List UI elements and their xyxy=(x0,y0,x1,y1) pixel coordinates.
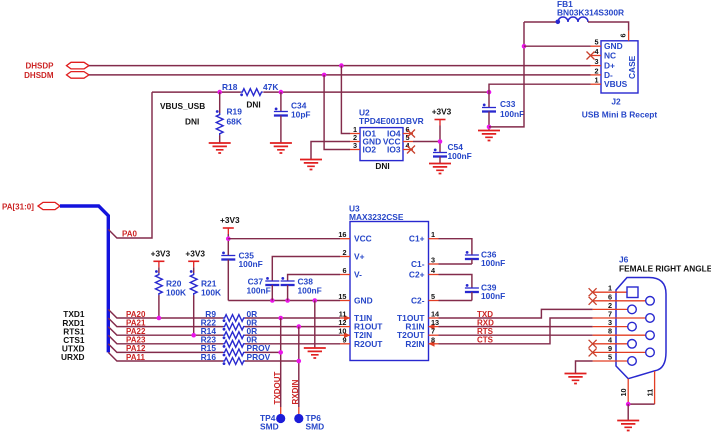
svg-text:R19: R19 xyxy=(227,107,243,117)
capacitor C35 100nF xyxy=(221,251,262,301)
wire GND rail to ground xyxy=(314,301,316,349)
svg-text:SMD: SMD xyxy=(306,421,325,431)
U3 pin 16 VCC xyxy=(338,230,371,244)
capacitor C37 100nF xyxy=(247,277,280,301)
U3 pin 1 C1+ xyxy=(409,230,439,244)
resistor R22 0R xyxy=(201,317,258,330)
wire J6 pin10-11 join xyxy=(628,403,654,405)
wire RXD to J6 pin3 xyxy=(439,326,593,328)
ground under C33 xyxy=(478,131,500,141)
no-connect X on U2 pin 4 xyxy=(407,146,415,154)
svg-text:FEMALE RIGHT ANGLE: FEMALE RIGHT ANGLE xyxy=(619,264,711,274)
wire U3 C2+ to C39 xyxy=(439,275,472,289)
svg-text:3: 3 xyxy=(431,256,435,265)
J6 pin 4 xyxy=(593,335,637,348)
svg-text:URXD: URXD xyxy=(61,352,85,362)
svg-text:+3V3: +3V3 xyxy=(220,215,240,225)
svg-text:RXDIN: RXDIN xyxy=(291,379,300,404)
wire CTS to J6 pin7 xyxy=(439,318,593,344)
U3 pin 4 C2+ xyxy=(409,266,439,280)
junction DHSDM / U2 IO2 xyxy=(322,73,327,78)
wire PA0 branch xyxy=(108,92,152,238)
svg-text:VBUS: VBUS xyxy=(604,79,628,89)
wire VBUS_USB / R18 net xyxy=(152,91,489,93)
resistor R23 0R xyxy=(201,335,258,348)
svg-text:47K: 47K xyxy=(263,82,278,92)
U3 pin 15 GND xyxy=(338,292,372,306)
svg-text:R2IN: R2IN xyxy=(405,339,424,349)
svg-text:NC: NC xyxy=(604,51,616,61)
U3 pin 12 R1OUT xyxy=(338,318,383,332)
U3 pin 8 R2IN xyxy=(405,335,438,349)
wire DHSDP to J2 D+ xyxy=(89,65,591,67)
wire U3 C1+ to C36 xyxy=(439,239,472,255)
wire PA22 branch from bus xyxy=(108,327,223,336)
op-amp U2 TPD4E001DBVR xyxy=(360,128,403,161)
svg-text:DNI: DNI xyxy=(246,100,260,110)
svg-text:11: 11 xyxy=(645,389,654,397)
U2 pin 5 VCC xyxy=(383,133,413,147)
junction RXDIN / R1OUT xyxy=(297,324,302,329)
svg-text:GND: GND xyxy=(354,296,373,306)
svg-text:1: 1 xyxy=(594,76,598,85)
resistor R18 47K DNI xyxy=(222,82,278,110)
svg-text:6: 6 xyxy=(342,266,346,275)
wire R16 to right xyxy=(245,360,299,362)
svg-text:15: 15 xyxy=(338,292,346,301)
wire PA23 branch from bus xyxy=(108,335,223,344)
connector J2 USB Mini B Recept xyxy=(601,41,638,93)
svg-text:10pF: 10pF xyxy=(291,110,311,120)
J6 pin 2 xyxy=(593,301,637,314)
svg-text:1: 1 xyxy=(431,230,435,239)
wire R9 to right xyxy=(245,317,340,319)
svg-text:TXDOUT: TXDOUT xyxy=(273,372,282,405)
junction C33 bottom / GND net xyxy=(487,125,492,130)
capacitor C34 10pF xyxy=(274,92,311,143)
J6 pin 6 xyxy=(593,292,655,305)
U3 pin 10 T2IN xyxy=(338,327,372,341)
testpoint TP6 SMD xyxy=(294,407,324,431)
U3 pin 11 T1IN xyxy=(339,310,372,324)
J6 pin 3 xyxy=(593,318,637,331)
svg-text:6: 6 xyxy=(619,33,628,37)
J6 pin 5 xyxy=(593,353,637,366)
capacitor C54 100nF xyxy=(433,142,472,164)
junction C38 bottom xyxy=(285,298,290,303)
resistor R15 PROV xyxy=(201,343,271,356)
wire PA11 branch from bus xyxy=(108,352,223,361)
svg-text:USB Mini B Recept: USB Mini B Recept xyxy=(582,110,658,120)
svg-text:10: 10 xyxy=(619,388,628,396)
svg-text:3: 3 xyxy=(353,141,357,150)
svg-text:R18: R18 xyxy=(222,82,238,92)
svg-text:16: 16 xyxy=(338,230,346,239)
U3 pin 6 V- xyxy=(340,266,362,280)
U3 pin 7 T2OUT xyxy=(397,327,438,341)
wire C36 bottom to U3 C1- xyxy=(439,263,472,265)
wire U3 V+ to C37 xyxy=(272,257,340,282)
ground below U3 xyxy=(304,348,326,358)
J2 pin 1 VBUS xyxy=(591,76,628,90)
junction R21 / PA22 xyxy=(191,333,196,338)
no-connect X on J6 pin 6 xyxy=(589,297,597,305)
op-amp U3 MAX3232CSE xyxy=(350,222,429,361)
no-connect X on J6 pin 4 xyxy=(589,340,597,348)
junction TXDOUT / T1IN xyxy=(278,316,283,321)
wire TXD to J6 pin2 xyxy=(439,309,593,318)
svg-text:IO3: IO3 xyxy=(387,145,401,155)
junction +3V3 / U3 VCC xyxy=(226,236,231,241)
junction VBUS xyxy=(487,90,492,95)
svg-text:100nF: 100nF xyxy=(481,258,505,268)
wire GND net vertical to FB1 xyxy=(489,22,524,127)
svg-text:100nF: 100nF xyxy=(298,286,322,296)
U2 pin 3 IO2 xyxy=(350,141,376,155)
U2 pin 4 IO3 xyxy=(387,141,413,155)
svg-text:100K: 100K xyxy=(166,288,186,298)
junction DHSDP / U2 IO1 xyxy=(339,63,344,68)
wire RTS to J6 pin8 xyxy=(439,334,593,336)
svg-text:100nF: 100nF xyxy=(500,109,524,119)
resistor R19 68K DNI xyxy=(185,92,242,143)
J2 pin 4 NC xyxy=(591,47,617,61)
J2 pin 6 CASE xyxy=(619,31,637,79)
svg-text:8: 8 xyxy=(431,335,435,344)
wire R22 to right xyxy=(245,326,340,328)
U3 pin 5 C2- xyxy=(411,292,439,306)
svg-text:100K: 100K xyxy=(201,288,221,298)
wire PA12 branch from bus xyxy=(108,344,223,353)
wire DHSDM to U2 IO2 xyxy=(324,75,350,150)
junction U2 VCC / C54 xyxy=(438,139,443,144)
wire PA21 branch from bus xyxy=(108,318,223,327)
connector J6 FEMALE RIGHT ANGLE xyxy=(616,278,666,379)
J2 pin 3 D+ xyxy=(591,57,616,71)
svg-text:100nF: 100nF xyxy=(481,291,505,301)
junction RXDIN / R16 xyxy=(297,359,302,364)
power +3V3 at R20 xyxy=(151,248,171,267)
svg-text:VCC: VCC xyxy=(354,234,372,244)
junction R18/R19 xyxy=(217,90,222,95)
J6 pin 10 xyxy=(619,379,628,404)
U3 pin 9 R2OUT xyxy=(340,335,383,349)
wire GND to J2 pin5 xyxy=(524,45,591,47)
svg-text:+3V3: +3V3 xyxy=(151,248,171,258)
resistor R20 100K xyxy=(155,267,186,318)
svg-text:R16: R16 xyxy=(201,352,217,362)
wire DHSDP to U2 IO1 xyxy=(341,66,350,134)
ground under C54 xyxy=(429,164,451,174)
wire J2 VBUS to C33 xyxy=(489,84,591,92)
bus PA[31:0] xyxy=(60,206,108,352)
svg-text:9: 9 xyxy=(342,335,346,344)
node PA[31:0] bus connector xyxy=(2,202,60,211)
ground under C34 xyxy=(270,143,292,153)
J2 pin 5 GND xyxy=(591,38,623,52)
wire +3V3 down to C54 xyxy=(439,126,441,153)
U2 pin 1 IO1 xyxy=(350,125,376,139)
junction R18/C34 xyxy=(279,90,284,95)
junction GND rail branch xyxy=(313,298,318,303)
wire U2 VCC to +3V3 xyxy=(413,141,440,143)
wire RXDIN vertical xyxy=(298,327,300,407)
resistor R9 0R xyxy=(205,309,257,322)
wire TXDOUT vertical xyxy=(280,318,282,407)
power +3V3 at U2 xyxy=(432,107,452,126)
wire R23 to right xyxy=(245,343,340,345)
wire R15 to right xyxy=(245,351,281,353)
wire U3 V- to C38 xyxy=(288,275,340,282)
svg-text:PA11: PA11 xyxy=(126,353,146,362)
wire DHSDM to J2 D- xyxy=(89,74,591,76)
svg-text:BN03K314S300R: BN03K314S300R xyxy=(557,8,624,18)
svg-text:C2-: C2- xyxy=(411,296,425,306)
svg-text:5: 5 xyxy=(608,353,612,362)
power +3V3 at U3 VCC xyxy=(220,215,240,234)
wire FB1 left xyxy=(524,21,558,23)
U2 pin 2 GND xyxy=(350,133,381,147)
J6 pin 1 xyxy=(593,284,638,298)
no-connect X on J2 pin 4 xyxy=(587,52,595,60)
power +3V3 at R21 xyxy=(185,248,205,267)
svg-text:100nF: 100nF xyxy=(239,259,263,269)
wire GND rail to U3 pin15 xyxy=(228,300,340,302)
U3 pin 2 V+ xyxy=(340,248,365,262)
junction J6 shield ground xyxy=(626,402,631,407)
svg-text:+3V3: +3V3 xyxy=(432,107,452,117)
svg-text:SMD: SMD xyxy=(260,421,279,431)
ground at J6 pin5 xyxy=(565,374,587,384)
svg-text:2: 2 xyxy=(594,66,598,75)
svg-text:C1+: C1+ xyxy=(409,234,425,244)
wire PA20 branch from bus xyxy=(108,309,223,318)
svg-text:PA[31:0]: PA[31:0] xyxy=(2,202,34,211)
ground under R19 xyxy=(209,143,231,153)
testpoint TP4 SMD xyxy=(260,407,285,431)
svg-text:VBUS_USB: VBUS_USB xyxy=(160,101,205,111)
svg-text:V-: V- xyxy=(354,270,362,280)
svg-text:J2: J2 xyxy=(611,97,621,107)
junction GND / J2 pin5 xyxy=(522,44,527,49)
U3 pin 14 T1OUT xyxy=(397,310,440,324)
svg-text:CTS: CTS xyxy=(477,336,494,345)
svg-text:IO2: IO2 xyxy=(363,145,377,155)
U3 pin 13 R1IN xyxy=(405,318,439,332)
capacitor C38 100nF xyxy=(281,277,322,301)
ground under U2 pin 2 xyxy=(300,160,322,170)
svg-text:C33: C33 xyxy=(500,99,516,109)
svg-text:TPD4E001DBVR: TPD4E001DBVR xyxy=(359,116,424,126)
junction TXDOUT / R15 xyxy=(278,350,283,355)
J6 pin 8 xyxy=(593,327,655,340)
wire FB1 right to J2 CASE xyxy=(588,22,629,31)
svg-text:DHSDP: DHSDP xyxy=(25,62,54,71)
ground under J6 xyxy=(617,421,639,431)
U2 pin 6 IO4 xyxy=(387,125,413,139)
svg-text:PA0: PA0 xyxy=(122,230,138,239)
capacitor C33 100nF xyxy=(482,92,524,130)
svg-text:5: 5 xyxy=(431,292,435,301)
junction C37 bottom xyxy=(270,298,275,303)
svg-text:100nF: 100nF xyxy=(448,151,472,161)
node DHSDM off-page connector xyxy=(24,71,89,80)
svg-text:2: 2 xyxy=(342,248,346,257)
J6 pin 7 xyxy=(593,310,655,323)
svg-text:R2OUT: R2OUT xyxy=(354,339,383,349)
node DHSDP off-page connector xyxy=(25,62,89,71)
svg-text:DNI: DNI xyxy=(375,161,389,171)
svg-text:CASE: CASE xyxy=(627,55,637,79)
svg-text:68K: 68K xyxy=(227,117,242,127)
no-connect X on J6 pin 1 xyxy=(589,288,597,296)
resistor R14 0R xyxy=(201,326,258,339)
svg-text:C2+: C2+ xyxy=(409,270,425,280)
wire J6 pin5 to ground xyxy=(576,361,593,374)
wire U2 GND xyxy=(311,142,350,160)
capacitor C39 100nF xyxy=(465,283,505,302)
no-connect X on J6 pin 9 xyxy=(589,348,597,356)
svg-text:DNI: DNI xyxy=(185,117,199,127)
wire J6 shield to ground xyxy=(627,404,629,420)
capacitor C36 100nF xyxy=(465,250,505,269)
J2 pin 2 D- xyxy=(591,66,614,80)
svg-text:MAX3232CSE: MAX3232CSE xyxy=(349,212,404,222)
svg-text:+3V3: +3V3 xyxy=(185,248,205,258)
resistor R16 PROV xyxy=(201,352,271,365)
junction R20 / PA20 xyxy=(157,316,162,321)
wire R14 to right xyxy=(245,334,340,336)
svg-text:C1-: C1- xyxy=(411,259,425,269)
svg-text:100nF: 100nF xyxy=(247,286,271,296)
svg-text:V+: V+ xyxy=(354,252,365,262)
ferrite bead FB1 BN03K314S300R xyxy=(556,0,625,24)
svg-text:5: 5 xyxy=(594,38,598,47)
wire C39 bottom to U3 C2- xyxy=(439,300,472,302)
wire +3V3 to U3 pin16 xyxy=(228,238,340,240)
J6 pin 9 xyxy=(593,344,655,357)
svg-text:3: 3 xyxy=(594,57,598,66)
J6 pin 11 xyxy=(645,371,654,404)
resistor R21 100K xyxy=(190,267,221,335)
U3 pin 3 C1- xyxy=(411,256,439,270)
no-connect X on U2 pin 6 xyxy=(407,130,415,138)
wire +3V3 to C35 xyxy=(227,234,229,256)
svg-text:DHSDM: DHSDM xyxy=(24,71,54,80)
